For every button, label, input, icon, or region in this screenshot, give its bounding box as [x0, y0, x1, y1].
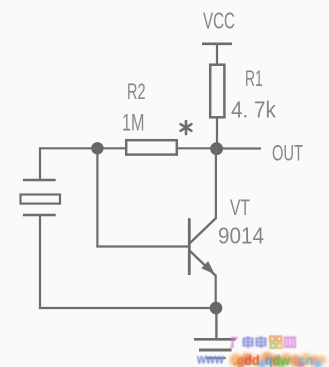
transistor VT base bar	[188, 218, 191, 275]
node junction collector/OUT	[210, 142, 223, 155]
collector wire up to node	[215, 149, 217, 219]
svg-text:9014: 9014	[218, 222, 264, 248]
base wire to transistor	[96, 245, 188, 247]
asterisk mark	[181, 121, 192, 134]
crystal body	[21, 195, 61, 204]
crystal top plate	[23, 179, 56, 181]
crystal bottom plate	[23, 214, 56, 216]
ground bar 2	[199, 349, 232, 352]
ground stem	[215, 308, 217, 339]
svg-text:VCC: VCC	[203, 8, 235, 34]
resistor R1 body	[210, 65, 224, 118]
svg-text:.cn: .cn	[295, 352, 313, 367]
wire node B to crystal branch	[40, 147, 97, 149]
wire VCC bar to R1	[216, 44, 218, 65]
wire node B down	[96, 148, 98, 246]
svg-text:4. 7k: 4. 7k	[231, 96, 276, 122]
wire node B to R2 left	[97, 147, 126, 149]
emitter arrow head	[201, 261, 215, 274]
svg-text:VT: VT	[230, 197, 250, 221]
transistor collector stroke	[190, 218, 217, 244]
wire node to OUT	[217, 147, 261, 149]
watermark site name blocks	[231, 336, 295, 348]
svg-text:1M: 1M	[122, 109, 145, 136]
wire down to crystal	[39, 147, 41, 180]
VCC terminal bar	[202, 42, 232, 45]
node junction emitter/ground	[210, 302, 223, 315]
wire R2 right to node	[177, 147, 217, 149]
watermark url band	[230, 352, 327, 367]
resistor R2 body	[126, 140, 177, 154]
transistor emitter stroke	[190, 251, 216, 276]
svg-text:OUT: OUT	[272, 141, 303, 166]
emitter wire down	[215, 275, 217, 309]
wire crystal to bottom rail	[39, 215, 41, 309]
ground bar 1	[194, 338, 236, 341]
wire R1 to output node	[216, 117, 218, 150]
node junction B (left)	[91, 142, 103, 154]
ground bar 3	[206, 357, 226, 359]
svg-text:.gdd: .gdd	[233, 352, 260, 367]
svg-text:qdw: qdw	[265, 352, 291, 367]
watermark url text	[196, 350, 313, 367]
svg-text:R2: R2	[127, 79, 146, 104]
svg-text:www: www	[196, 350, 224, 366]
bottom rail wire	[39, 307, 216, 309]
svg-text:R1: R1	[245, 66, 263, 91]
